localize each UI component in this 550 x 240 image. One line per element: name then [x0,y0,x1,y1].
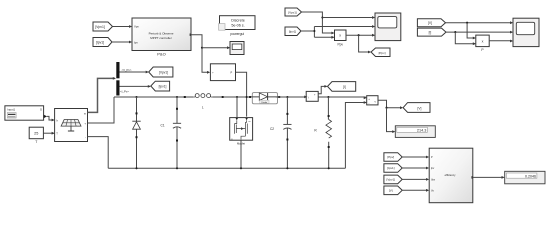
Goto tag [Ppv] [371,48,390,57]
display Vout 214.3 [395,126,435,138]
PWM generator block [210,64,235,81]
svg-text:m: m [84,113,86,116]
capacitor C2 [270,97,292,168]
multiply block P [476,35,489,52]
svg-text:[Vpv1]: [Vpv1] [288,10,297,14]
svg-text:[I]: [I] [429,31,432,35]
svg-text:5e-06 s.: 5e-06 s. [231,24,244,28]
svg-text:<I_Pv>: <I_Pv> [120,90,129,94]
measurement bus wire m [88,77,117,112]
svg-text:m: m [249,121,251,123]
scope Scope2 (duty cycle) [230,42,244,55]
bus selector bar (I_PV) [116,80,119,95]
wire V_PV to goto [120,68,149,73]
svg-text:214.3: 214.3 [417,129,427,133]
svg-text:efficiency: efficiency [445,173,456,177]
wire P to scope3 [489,40,513,43]
capacitor C1 [161,97,182,168]
scope Scope1 (PV waveforms) [375,13,401,41]
Goto tag [V] [403,103,430,113]
svg-text:MPPT controller: MPPT controller [150,36,171,40]
svg-text:x: x [482,39,484,43]
svg-text:[V]: [V] [389,189,393,193]
From tag [Vpv1] (to P&O) [93,22,113,31]
Goto tag [Vpv1] [149,67,173,77]
svg-text:Ir: Ir [56,118,58,122]
MOSFET switch block [230,118,253,146]
From tag [I] (output section) [417,28,446,36]
efficiency subsystem block [429,148,473,203]
svg-text:[Ipv1]: [Ipv1] [96,41,104,45]
wire Vpv1 to subsystem [402,178,429,181]
svg-text:-: - [85,135,86,139]
wire I_PV to goto [120,85,151,94]
svg-text:P: P [231,71,233,75]
svg-text:Ipv: Ipv [134,40,138,44]
wire Ipv1 to subsystem [402,167,429,170]
scope Scope3 (output V,I,P) [513,18,539,46]
wire subsystem to display [473,176,505,179]
svg-text:R: R [314,128,317,132]
svg-text:P: P [481,48,484,52]
wire Input1 to PV Ir [47,116,55,121]
svg-text:[Ppv]: [Ppv] [387,155,394,159]
top wire middle section [223,96,250,98]
wire V to subsystem [402,189,429,192]
svg-text:[Ppv]: [Ppv] [379,51,386,55]
From tag [Vpv1] (Ppv section) [285,8,302,16]
top wire left section [114,96,185,98]
From tag [Ipv1] (efficiency section) [384,164,402,173]
P&O MPPT block [132,18,191,56]
svg-text:C1: C1 [161,124,165,128]
constant block 25 (temperature) [29,127,43,144]
wire MOSFET source to rail [240,140,242,168]
svg-text:-: - [369,102,370,106]
top wire right section [276,96,367,99]
svg-text:Vpv: Vpv [134,25,139,29]
wire V to scope3 and multiply P [446,21,514,39]
powergui block [219,16,255,37]
From tag [Ipv1] (to P&O) [93,38,112,47]
svg-text:[Ipv1]: [Ipv1] [289,29,297,33]
Signal Builder block Input1 (irradiance) [5,106,47,120]
wire voltage measure output [378,100,403,133]
wire 25 to PV T [43,132,54,135]
svg-text:[Vpv1]: [Vpv1] [387,178,396,182]
wire PV+ to top node [88,97,115,123]
From tag [V] (efficiency section) [384,186,402,195]
multiply block Ppv product [335,30,347,47]
inductor L [184,94,224,110]
svg-text:[Vpv1]: [Vpv1] [95,25,105,29]
svg-text:Discrete: Discrete [231,19,245,23]
Goto tag [I] [328,82,356,92]
svg-text:x: x [339,34,341,38]
wire PWM output to MOSFET gate [236,72,247,116]
current measurement block [304,91,318,101]
voltage measurement block [367,96,378,106]
wire Ipv1 to P&O [112,41,132,44]
svg-text:[V]: [V] [428,21,432,25]
svg-text:C2: C2 [270,127,274,131]
Goto tag [Ipv1] [151,81,170,91]
svg-text:P&O: P&O [157,51,165,56]
wire product to scope1 and Ppv goto [346,34,375,54]
bus selector bar (V_PV) [116,62,119,78]
svg-text:Perturb & Observe: Perturb & Observe [149,31,174,35]
svg-text:<V_Pv>: <V_Pv> [122,68,132,72]
wire Ppv to subsystem [402,156,429,159]
From tag [Ipv1] (Ppv section) [285,27,301,36]
wire Vpv1 to multiply and scope1 [302,12,376,34]
wire P&O output to PWM and scope [191,35,230,74]
display efficiency 0.2046 [505,171,545,184]
wire I to scope3 and multiply P [446,31,513,45]
wire current signal to goto I [318,85,327,94]
diode D (vertical, anti-parallel) [132,97,140,168]
bottom rail [108,167,345,169]
svg-text:G: G [40,108,42,112]
resistor R [314,97,331,168]
PV array block [55,109,88,142]
wire Ipv1 to multiply and scope1 [301,25,375,39]
wire Vpv1 to P&O [113,25,133,28]
From tag [Vpv1] (efficiency section) [384,175,402,184]
series diode block [249,93,280,104]
svg-text:25: 25 [34,132,38,136]
svg-text:[Ipv1]: [Ipv1] [159,85,167,89]
svg-text:[V]: [V] [418,106,422,110]
svg-text:Diode: Diode [261,102,267,104]
svg-text:powergui: powergui [230,32,244,36]
svg-text:L: L [202,105,204,109]
svg-text:Ppv: Ppv [337,43,343,47]
From tag [Ppv] (efficiency section) [384,153,402,162]
svg-text:[I]: [I] [343,85,346,89]
svg-text:0.2046: 0.2046 [525,175,536,179]
svg-text:Input1: Input1 [7,107,15,111]
svg-text:[Vpv1]: [Vpv1] [159,71,168,75]
wire drain to MOSFET [236,97,238,118]
svg-text:T: T [35,140,37,144]
wire PV- to bottom rail [88,137,109,169]
wire voltage - to rail [345,101,367,168]
svg-text:[Ipv1]: [Ipv1] [387,166,395,170]
From tag [V] (output section) [417,19,445,27]
